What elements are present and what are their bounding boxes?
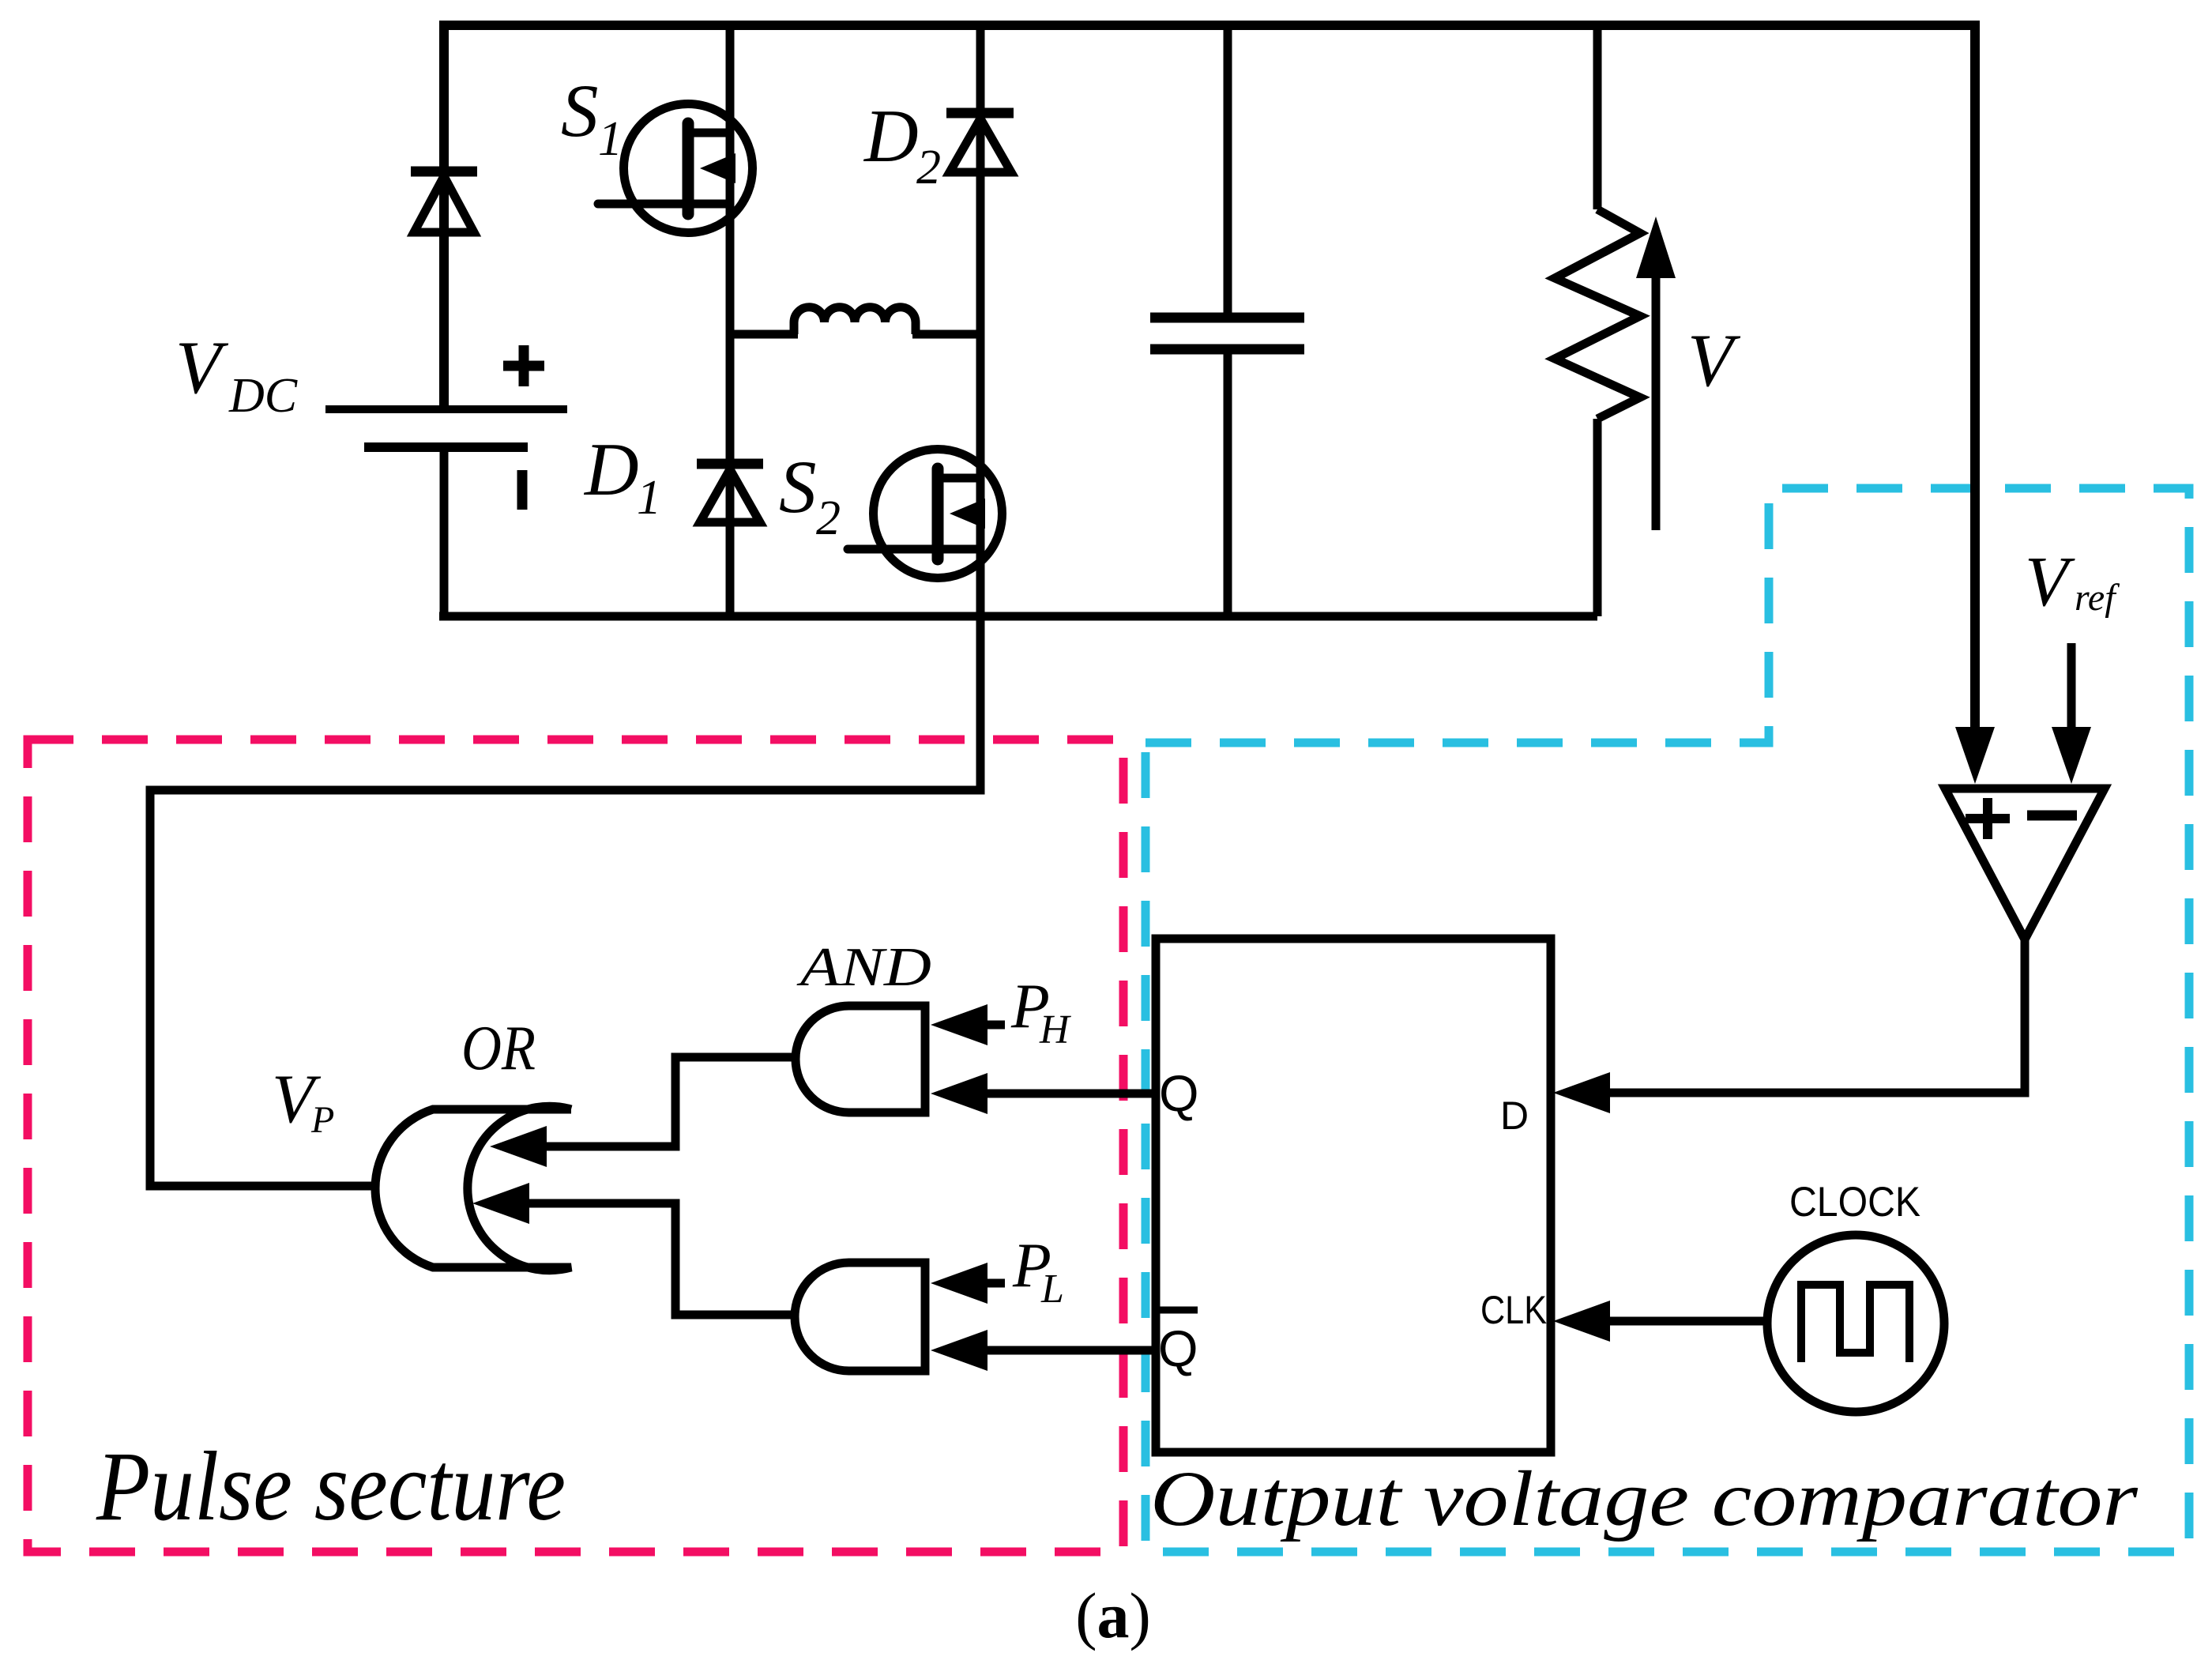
wire: AND top output to OR upper input	[543, 1057, 798, 1146]
svg-text:1: 1	[637, 471, 661, 525]
svg-text:2: 2	[816, 491, 841, 545]
svg-text:CLK: CLK	[1480, 1288, 1547, 1332]
svg-text:D: D	[1500, 1094, 1529, 1138]
transistor S2	[848, 450, 1003, 578]
flip-flop box	[1156, 939, 1551, 1452]
svg-text:DC: DC	[228, 369, 298, 423]
arrowhead: PH	[931, 1004, 987, 1045]
wire: AND bottom output to OR lower input	[526, 1203, 797, 1315]
AND gate top	[796, 1006, 925, 1112]
svg-text:S: S	[779, 445, 817, 529]
arrowhead: D input	[1553, 1072, 1610, 1113]
svg-text:V: V	[175, 326, 229, 409]
wire: Qbar to AND	[984, 1346, 1156, 1355]
diode D2	[946, 113, 1014, 172]
wire: bottom rail	[439, 612, 1597, 621]
resistor load	[1555, 209, 1640, 419]
svg-text:D: D	[583, 427, 639, 511]
wire: inductor right lead	[912, 330, 980, 339]
svg-text:ref: ref	[2075, 577, 2120, 619]
diode input (left branch)	[411, 171, 477, 232]
wire: S1/D1 branch	[726, 25, 735, 616]
Vref input arrow	[2052, 643, 2091, 784]
wire: comparator output to D input	[1609, 939, 2025, 1093]
svg-text:Pulse secture: Pulse secture	[96, 1432, 566, 1542]
svg-text:Output voltage comparator: Output voltage comparator	[1150, 1455, 2139, 1542]
clock waveform	[1801, 1285, 1909, 1362]
capacitor	[1150, 318, 1304, 349]
arrowhead: Qbar into AND bottom	[931, 1330, 987, 1371]
arrowhead: CLK input	[1553, 1301, 1610, 1342]
svg-text:AND: AND	[796, 937, 931, 998]
PH input stub	[985, 1021, 1005, 1030]
AND gate bottom	[795, 1263, 925, 1371]
wire: resistor branch upper	[1593, 25, 1602, 209]
arrow V (load voltage)	[1636, 216, 1676, 530]
transistor S1	[598, 104, 753, 233]
op-amp comparator	[1945, 789, 2105, 939]
svg-text:V: V	[2025, 543, 2075, 621]
wire: clock to CLK	[1609, 1317, 1767, 1326]
wire: capacitor branch lower	[1224, 349, 1232, 616]
arrowhead: feedback into comparator plus	[1955, 727, 1995, 784]
wire: Q to AND	[984, 1090, 1156, 1098]
clock source circle	[1767, 1235, 1944, 1412]
arrowhead: Q into AND top	[931, 1073, 987, 1114]
svg-text:OR: OR	[461, 1014, 536, 1083]
wire: capacitor branch upper	[1224, 25, 1232, 318]
svg-text:1: 1	[598, 112, 623, 166]
wire: resistor branch lower	[1593, 419, 1602, 616]
arrowhead: PL	[931, 1263, 987, 1304]
wire: top rail with left branch upper and right feedback drop	[444, 25, 1975, 731]
wire: D2/S2 branch and VP feed to pulse block	[150, 25, 980, 1186]
battery VDC	[325, 345, 567, 510]
arrowhead: OR upper input	[490, 1126, 547, 1167]
OR gate	[375, 1106, 571, 1270]
output voltage comparator box (cyan dashed)	[1145, 488, 2189, 1552]
svg-text:V: V	[1687, 318, 1741, 402]
svg-text:Q: Q	[1158, 1320, 1198, 1377]
wire: left branch lower	[440, 447, 449, 620]
PL input stub	[985, 1279, 1005, 1288]
svg-text:D: D	[863, 94, 919, 178]
wire: inductor left lead	[730, 330, 798, 339]
svg-text:S: S	[561, 69, 599, 152]
svg-text:P: P	[310, 1099, 334, 1141]
svg-text:Q: Q	[1159, 1064, 1199, 1122]
svg-text:2: 2	[916, 141, 941, 194]
svg-text:L: L	[1040, 1267, 1064, 1312]
svg-text:CLOCK: CLOCK	[1789, 1179, 1920, 1225]
inductor	[794, 307, 916, 334]
arrowhead: OR lower input	[472, 1183, 529, 1224]
svg-text:H: H	[1039, 1007, 1071, 1052]
diode D1	[697, 464, 763, 522]
pulse secture box (pink dashed)	[28, 740, 1123, 1552]
svg-text:(a): (a)	[1075, 1579, 1151, 1651]
